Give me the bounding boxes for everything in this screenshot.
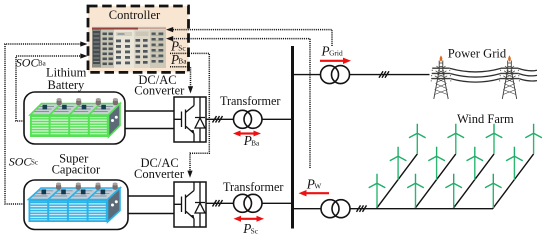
3-phase slashes (213, 200, 223, 207)
tower right (500, 55, 520, 99)
wire converter1 to transformer1 to bus (206, 118, 292, 120)
controller dashed border (88, 6, 189, 72)
3-phase slashes grid (379, 71, 389, 78)
svg-text:Transformer: Transformer (223, 180, 283, 194)
svg-text:Converter: Converter (134, 167, 185, 181)
transformer T3 (grid) (321, 66, 350, 84)
svg-text:Power Grid: Power Grid (448, 46, 507, 60)
red arrow P_W flow (299, 190, 330, 196)
3-phase slashes (213, 116, 223, 123)
converter U2 (supercapacitor DC/AC) (174, 182, 206, 227)
wind turbine WT2 rotor (390, 147, 407, 161)
wind turbine WT10 rotor (485, 174, 502, 188)
dotted command line P_Ba to converter 1 (170, 67, 191, 87)
svg-text:Capacitor: Capacitor (52, 162, 101, 176)
converter U1 (battery DC/AC) (174, 97, 206, 142)
wire bus to wind transformer (294, 208, 493, 210)
wind turbines: masts (377, 133, 534, 208)
svg-text:Battery: Battery (48, 78, 86, 92)
wind turbine WT9 rotor (486, 124, 503, 138)
lithium battery container (24, 92, 125, 144)
super capacitor 3D illustration (29, 183, 121, 223)
controller peach panel (88, 6, 189, 72)
svg-text:SOC: SOC (16, 55, 40, 69)
red arrow P_Grid flow (320, 58, 351, 64)
dotted measurement line P_W into controller (172, 39, 310, 168)
svg-text:Controller: Controller (109, 8, 161, 22)
wires battery to converter 1 (125, 111, 174, 129)
wind turbine WT4 rotor (407, 174, 424, 188)
transformer T1 (234, 110, 263, 128)
catenary cables (450, 68, 537, 82)
svg-text:Sc: Sc (178, 44, 186, 53)
wind turbine WT3 rotor (409, 124, 426, 138)
svg-text:Ba: Ba (251, 138, 260, 147)
wind turbine WT5 rotor (428, 147, 445, 161)
dotted feedback line SOC_Ba (battery to controller) (16, 56, 81, 121)
dotted measurement line P_Grid into controller (172, 30, 332, 46)
battery 3D illustration (30, 98, 120, 137)
svg-text:Sc: Sc (31, 159, 38, 167)
svg-text:Wind Farm: Wind Farm (457, 112, 514, 126)
main bus bar (291, 46, 294, 229)
transformer T4 (wind) (321, 200, 350, 218)
wire converter2 to transformer2 to bus (206, 202, 292, 204)
wind turbine WT6 rotor (448, 124, 465, 138)
3-phase slashes wind (357, 205, 367, 212)
svg-text:Sc: Sc (251, 226, 259, 235)
wires supercapacitor to converter 2 (128, 196, 174, 214)
svg-text:Ba: Ba (178, 57, 187, 66)
svg-text:Transformer: Transformer (220, 94, 280, 108)
svg-text:SOC: SOC (9, 155, 33, 169)
wind turbine WT8 rotor (467, 147, 484, 161)
red arrow P_Ba flow (233, 131, 261, 137)
dotted command line P_Sc to converter 2 (170, 53, 209, 172)
wind turbine WT7 rotor (445, 174, 462, 188)
wind turbine WT1 rotor (369, 174, 386, 188)
dotted feedback line SOC_Sc (supercapacitor to controller) (5, 44, 81, 204)
svg-text:Converter: Converter (134, 83, 185, 97)
wind turbine WT11 rotor (506, 147, 523, 161)
svg-text:Grid: Grid (329, 49, 343, 58)
wind farm feeder diagonals (376, 154, 533, 209)
red arrow P_Sc flow (234, 216, 265, 222)
super capacitor container (24, 180, 128, 230)
controller cabinet photo (92, 27, 166, 69)
wire bus to grid transformer (294, 74, 430, 76)
transformer T2 (234, 194, 263, 212)
svg-text:W: W (314, 182, 321, 191)
wind turbine WT12 rotor (525, 124, 542, 138)
tower left (431, 55, 451, 99)
